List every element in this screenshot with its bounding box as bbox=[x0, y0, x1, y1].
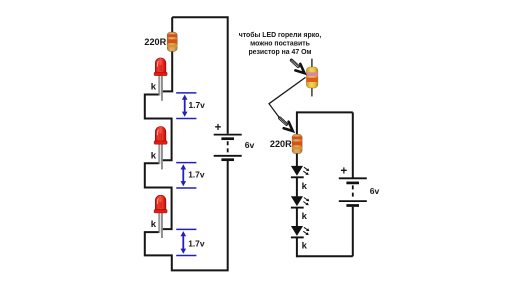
annotation text (Russian) bbox=[239, 31, 322, 56]
wire: right circuit left side top segment to resistor R2 bbox=[296, 111, 298, 134]
wire: right circuit top rail bbox=[297, 111, 353, 113]
wire: left circuit from battery minus along bottom and up the step to LED D3 cathode bbox=[145, 161, 228, 270]
resistor R1 220R (left circuit, realistic) bbox=[167, 32, 177, 51]
svg-text:1.7v: 1.7v bbox=[188, 169, 205, 179]
sketched arrow pointing to 47 Ohm resistor bbox=[290, 59, 304, 73]
LED D3 (realistic red LED) bbox=[154, 195, 167, 238]
wire: step from LED D2 cathode down to LED D3 anode bbox=[145, 163, 172, 229]
measurement 1.7v across D2 bbox=[176, 163, 205, 188]
resistor R3 47 Ohm (annotation, realistic) bbox=[306, 59, 318, 97]
svg-text:k: k bbox=[302, 181, 308, 192]
wire: step from LED D1 cathode down to LED D2 anode bbox=[145, 95, 172, 161]
wire: left circuit top rail from resistor R1 to battery plus bbox=[172, 17, 228, 134]
svg-text:6v: 6v bbox=[245, 140, 255, 150]
svg-text:1.7v: 1.7v bbox=[188, 238, 205, 248]
LED D6 (schematic symbol) bbox=[291, 226, 309, 237]
svg-text:k: k bbox=[151, 219, 157, 230]
svg-text:+: + bbox=[341, 166, 348, 178]
svg-text:k: k bbox=[302, 241, 308, 252]
svg-text:k: k bbox=[151, 82, 157, 93]
svg-text:220R: 220R bbox=[270, 139, 292, 149]
LED D2 (realistic red LED) bbox=[154, 127, 167, 170]
sketched arrow pointing to resistor R2 220R bbox=[279, 117, 293, 131]
svg-text:чтобы LED горели ярко,: чтобы LED горели ярко, bbox=[239, 31, 322, 39]
svg-text:6v: 6v bbox=[370, 186, 380, 196]
measurement 1.7v across D1 bbox=[176, 93, 205, 119]
battery B1 6v (left circuit) bbox=[214, 135, 242, 160]
wire: battery B2 minus to bottom rail bbox=[352, 207, 354, 256]
svg-text:1.7v: 1.7v bbox=[189, 100, 206, 110]
wire: LED D4 to LED D5 bbox=[296, 177, 298, 196]
wire: right circuit bottom rail bbox=[297, 255, 353, 257]
wire: left vertical through resistor R1 down to LED D1 anode bbox=[161, 17, 172, 91]
svg-text:k: k bbox=[151, 150, 157, 161]
LED D5 (schematic symbol) bbox=[291, 196, 309, 207]
battery B2 6v (right circuit) bbox=[339, 178, 367, 205]
svg-text:можно поставить: можно поставить bbox=[250, 40, 310, 47]
svg-text:резистор на 47 Ом: резистор на 47 Ом bbox=[248, 49, 311, 56]
wire: right circuit right side top segment to battery B2 plus bbox=[352, 112, 354, 177]
wire: resistor R2 to LED D4 bbox=[296, 154, 298, 167]
resistor R2 220R (right circuit, realistic) bbox=[292, 134, 302, 153]
LED D1 (realistic red LED) bbox=[154, 58, 167, 101]
svg-text:k: k bbox=[302, 211, 308, 222]
LED D4 (schematic symbol) bbox=[291, 166, 309, 177]
svg-text:220R: 220R bbox=[144, 37, 166, 47]
pointer line from 47 Ohm resistor down to arrow at 220R bbox=[269, 77, 306, 118]
wire: LED D6 to bottom rail bbox=[296, 237, 298, 257]
measurement 1.7v across D3 bbox=[176, 229, 205, 255]
wire: LED D5 to LED D6 bbox=[296, 208, 298, 227]
svg-text:+: + bbox=[215, 122, 222, 134]
